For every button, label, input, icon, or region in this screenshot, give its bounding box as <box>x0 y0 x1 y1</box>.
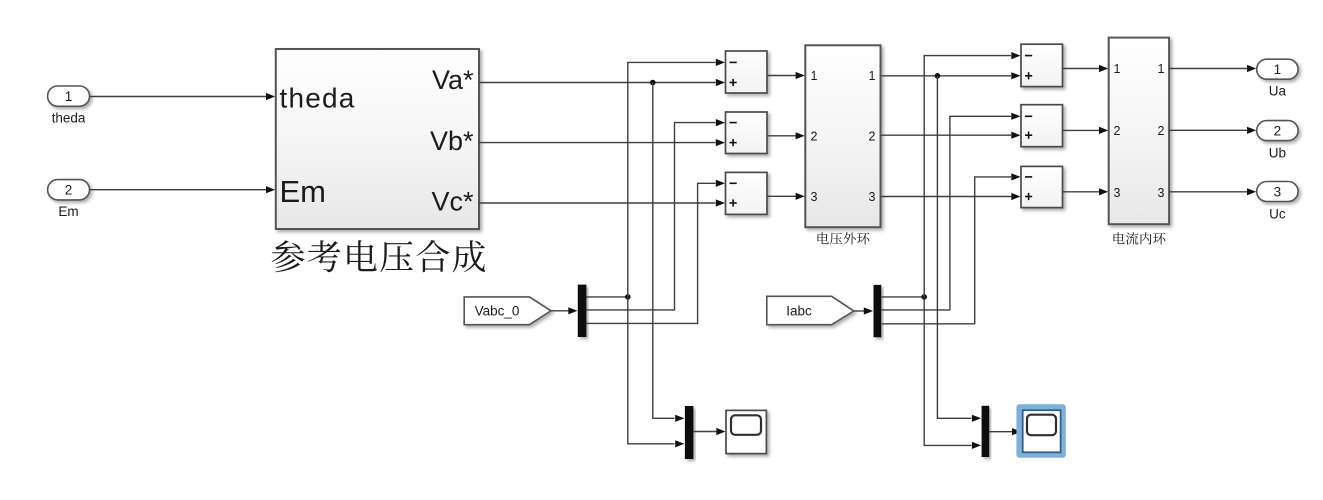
svg-text:Vb*: Vb* <box>430 126 474 156</box>
svg-text:Iabc: Iabc <box>786 304 812 319</box>
wire 电流内环 out3 -> output port 3 <box>1169 191 1247 193</box>
svg-text:1: 1 <box>1158 62 1165 76</box>
svg-text:theda: theda <box>52 111 86 126</box>
scope block 1 <box>726 410 766 453</box>
demux1 out3 wire to sum3 - <box>586 183 715 323</box>
svg-text:Uc: Uc <box>1269 207 1286 222</box>
svg-text:2: 2 <box>811 130 818 144</box>
output port 3 "Uc" oval <box>1257 182 1298 202</box>
demux1 out2 wire to sum2 - <box>586 123 715 310</box>
demux1 (Vabc_0) black bar <box>578 285 587 337</box>
node on Va* wire <box>650 80 656 86</box>
wire Iabc[1] up to sumR1 - <box>924 56 1011 297</box>
output port 2 "Ub" oval <box>1257 121 1298 141</box>
svg-text:3: 3 <box>1158 186 1165 200</box>
wire sum3 -> 电压外环 port3 <box>767 195 796 197</box>
wire Vabc_0 -> demux1 <box>551 310 569 312</box>
wire Va* -> sum1 + (with branch node) <box>479 82 716 84</box>
wire Vb* -> sum2 + <box>479 142 716 144</box>
wire Iabc -> demux2 <box>854 310 864 312</box>
wire 电压外环 out3 -> sumR3 + <box>881 196 1012 198</box>
subsystem block 电流内环 (current inner loop) <box>1109 38 1169 225</box>
sum block R3 (Vc** - Ic) <box>1021 166 1063 207</box>
demux2 out2 wire to sumR2 - <box>881 116 1011 310</box>
svg-text:2: 2 <box>1274 124 1282 139</box>
wire Vabc[1] down to scope mux1 input2 <box>628 297 675 444</box>
wire mux2 -> scope2 <box>989 431 1012 433</box>
wire 电流内环 out1 -> output port 1 <box>1169 68 1247 70</box>
input port 2 "Em" oval <box>48 180 90 200</box>
wire sum1 -> 电压外环 port1 <box>767 75 796 77</box>
svg-text:2: 2 <box>1114 124 1121 138</box>
wire sum2 -> 电压外环 port2 <box>767 135 796 137</box>
svg-text:3: 3 <box>1274 185 1282 200</box>
wire branch out1 down to scope mux2 input1 <box>937 76 971 419</box>
svg-text:Vc*: Vc* <box>431 187 474 217</box>
svg-text:3: 3 <box>811 190 818 204</box>
svg-text:1: 1 <box>811 69 818 83</box>
demux2 out1 wire with branch node <box>881 296 924 298</box>
demux2 out3 wire to sumR3 - <box>881 177 1011 324</box>
svg-text:2: 2 <box>65 183 73 198</box>
wire sumR1 -> 电流内环 port1 <box>1063 68 1099 70</box>
subsystem block 参考电压合成 (reference voltage synthesis) <box>276 49 479 229</box>
wire port1 -> subsystem theda input <box>90 96 267 98</box>
wire branch Va* down to scope mux1 input1 <box>653 83 675 419</box>
demux2 (Iabc) black bar <box>874 285 882 337</box>
wire 电压外环 out1 -> sumR1 + (with branch node) <box>881 75 1012 77</box>
wire 电压外环 out2 -> sumR2 + <box>881 134 1012 136</box>
sum block R2 (Vb** - Ib) <box>1021 105 1063 147</box>
From tag Iabc <box>767 296 854 324</box>
svg-text:1: 1 <box>1274 62 1282 77</box>
svg-text:Em: Em <box>280 174 327 209</box>
demux1 out1 wire with branch node <box>586 296 627 298</box>
wire 电流内环 out2 -> output port 2 <box>1169 129 1247 131</box>
svg-text:2: 2 <box>869 130 876 144</box>
sum block R1 (Va** - Ia) <box>1021 44 1063 86</box>
wire sumR2 -> 电流内环 port2 <box>1063 129 1099 131</box>
wire Vabc[1] up to sum1 - <box>628 62 716 297</box>
input port 1 "theda" oval <box>48 86 90 106</box>
svg-text:1: 1 <box>1114 62 1121 76</box>
sum block 3 (Vc* - Vc) <box>726 172 768 214</box>
label 参考电压合成 <box>272 240 485 272</box>
mux2 (to scope2) black bar <box>982 406 990 457</box>
label 电流内环 <box>1114 232 1166 244</box>
mux1 (to scope1) black bar <box>685 406 694 459</box>
sum block 2 (Vb* - Vb) <box>726 112 768 154</box>
svg-text:1: 1 <box>65 89 73 104</box>
svg-text:Ub: Ub <box>1269 146 1286 161</box>
wire Iabc[1] down to scope mux2 input2 <box>924 297 971 446</box>
wire Vc* -> sum3 + <box>479 202 716 204</box>
sum block 1 (Va* - Va) <box>726 51 768 93</box>
svg-text:Ua: Ua <box>1269 84 1287 99</box>
scope block 2 (selected, blue highlight) <box>1016 404 1065 458</box>
svg-text:Vabc_0: Vabc_0 <box>475 303 520 318</box>
subsystem block 电压外环 (voltage outer loop) <box>805 45 880 227</box>
svg-text:theda: theda <box>280 83 356 114</box>
svg-text:Em: Em <box>58 204 78 219</box>
node on out1 wire <box>935 73 941 79</box>
wire sumR3 -> 电流内环 port3 <box>1063 191 1099 193</box>
svg-text:3: 3 <box>1114 186 1121 200</box>
wire mux1 -> scope1 <box>693 431 716 433</box>
output port 1 "Ua" oval <box>1257 59 1298 79</box>
svg-text:1: 1 <box>869 69 876 83</box>
svg-text:2: 2 <box>1158 124 1165 138</box>
svg-text:Va*: Va* <box>432 65 474 95</box>
svg-text:3: 3 <box>869 190 876 204</box>
wire port2 -> subsystem Em input <box>90 189 267 191</box>
label 电压外环 <box>818 232 870 244</box>
From tag Vabc_0 <box>464 297 551 325</box>
